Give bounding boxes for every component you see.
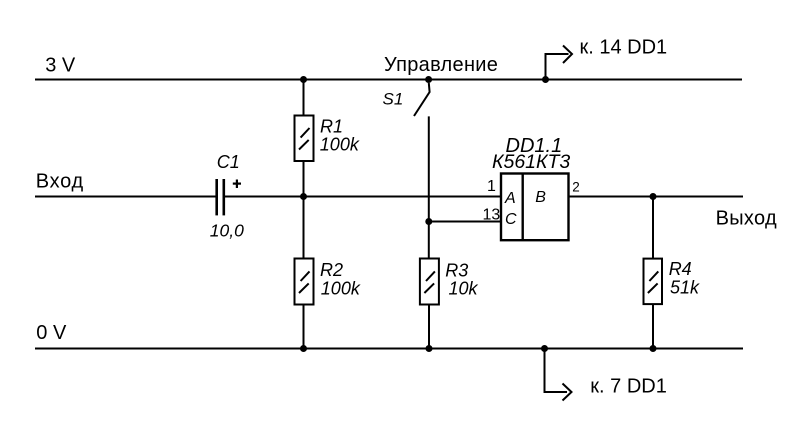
svg-text:2: 2	[572, 179, 580, 194]
wire R4 bottom lead	[652, 304, 654, 348]
capacitor C1	[217, 179, 224, 215]
svg-text:10,0: 10,0	[210, 220, 244, 240]
svg-text:S1: S1	[383, 90, 404, 109]
svg-text:к. 14 DD1: к. 14 DD1	[580, 37, 668, 59]
svg-text:Выход: Выход	[716, 208, 777, 230]
svg-text:К561КТ3: К561КТ3	[492, 151, 570, 173]
svg-text:R3: R3	[445, 260, 468, 280]
wire 3 V rail	[35, 79, 742, 81]
svg-text:C1: C1	[217, 152, 240, 172]
resistor R1	[295, 116, 314, 162]
wire pin 13 control line	[429, 221, 501, 223]
wire R3 bottom lead	[428, 305, 430, 349]
svg-text:100k: 100k	[320, 135, 360, 155]
node output/R4 junction	[650, 193, 657, 200]
svg-text:1: 1	[487, 178, 496, 195]
resistor R4	[644, 259, 663, 305]
node Управление/S1 junction	[425, 76, 432, 83]
svg-text:A: A	[504, 190, 516, 207]
wire R2 top lead	[303, 197, 305, 259]
arrow to к. 7 DD1	[545, 349, 572, 401]
polarity plus sign of C1	[233, 180, 241, 189]
svg-text:R4: R4	[669, 259, 692, 279]
wire S1 to node C and R3	[428, 116, 430, 258]
svg-text:10k: 10k	[449, 279, 479, 299]
node S1/R3/pin13 junction	[425, 218, 432, 225]
svg-text:C: C	[505, 211, 517, 228]
arrow to к. 14 DD1	[546, 46, 573, 80]
wire R4 top lead	[652, 197, 654, 259]
wire output line	[569, 196, 744, 198]
node 3V/к.14 junction	[542, 76, 549, 83]
svg-text:Вход: Вход	[36, 171, 84, 193]
wire R1 top lead	[303, 80, 305, 117]
node 0V/к.7 junction	[541, 345, 548, 352]
wire R1 bottom lead	[303, 161, 305, 197]
node 3V/R1 junction	[300, 76, 307, 83]
svg-text:Управление: Управление	[384, 54, 498, 76]
node 0V/R4 junction	[650, 345, 657, 352]
resistor R3	[420, 259, 439, 305]
svg-text:к. 7 DD1: к. 7 DD1	[590, 376, 667, 398]
node 0V/R3 junction	[426, 345, 433, 352]
svg-text:B: B	[535, 189, 546, 206]
svg-text:13: 13	[483, 207, 501, 224]
svg-text:51k: 51k	[670, 278, 700, 298]
wire R2 bottom lead	[303, 305, 305, 349]
analog switch DD1.1 box	[501, 174, 569, 241]
wire input line left segment	[35, 196, 216, 198]
svg-text:0 V: 0 V	[36, 322, 67, 344]
svg-text:R2: R2	[320, 260, 343, 280]
node 0V/R2 junction	[300, 345, 307, 352]
wire C1 to DD1.1 pin 1	[225, 196, 501, 198]
switch S1 blade	[414, 83, 430, 116]
svg-text:3 V: 3 V	[45, 55, 76, 77]
resistor R2	[295, 259, 314, 305]
node input/R1/R2 junction	[300, 193, 307, 200]
svg-text:100k: 100k	[321, 279, 361, 299]
wire 0 V rail	[35, 348, 743, 350]
